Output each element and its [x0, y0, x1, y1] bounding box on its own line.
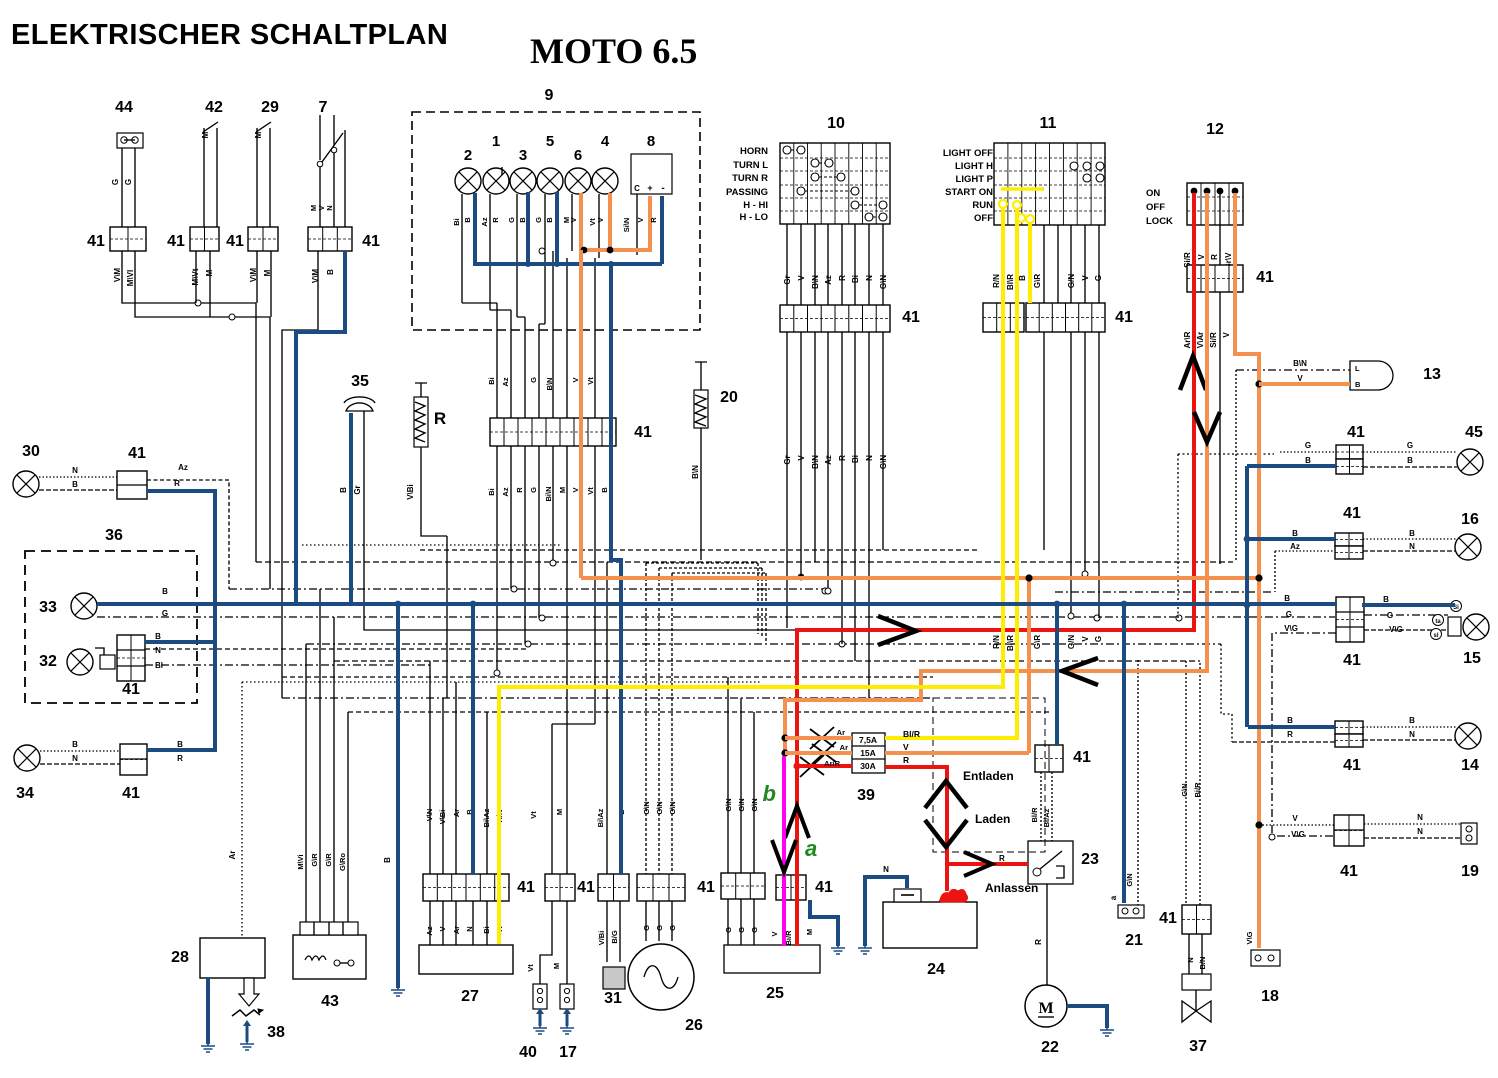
- svg-text:B: B: [518, 217, 527, 223]
- lamp 1: [483, 168, 509, 194]
- svg-text:20: 20: [720, 389, 738, 406]
- svg-text:G: G: [124, 179, 133, 185]
- svg-text:H - HI: H - HI: [743, 200, 768, 211]
- node orange 19: [1255, 821, 1262, 828]
- wire lamp6 V orange: [579, 193, 583, 250]
- svg-text:LIGHT P: LIGHT P: [956, 174, 994, 185]
- wire 15 G right: [1364, 614, 1448, 616]
- label 44 G G: [111, 179, 133, 185]
- svg-text:-: -: [661, 183, 664, 194]
- lamp 4: [592, 168, 618, 194]
- labels above 9 connector: [487, 377, 595, 391]
- label 30 out: [174, 463, 188, 488]
- wire band y592 right: [1055, 591, 1274, 593]
- wire lamp3 B navy: [526, 192, 530, 264]
- svg-text:Az: Az: [1290, 542, 1300, 551]
- connector 41 of 30: [117, 471, 147, 499]
- component 8 box: [631, 154, 672, 194]
- svg-text:Bi\Az: Bi\Az: [596, 808, 605, 827]
- svg-text:30A: 30A: [860, 761, 876, 771]
- label 32: [39, 653, 57, 670]
- component 7 label: [319, 99, 328, 116]
- svg-text:21: 21: [1125, 932, 1143, 949]
- label 3: [519, 147, 527, 164]
- arrow 28 hollow: [239, 978, 259, 1006]
- label 41 of 14: [1343, 757, 1361, 774]
- wire 38 navy: [243, 1020, 251, 1042]
- wire orange to 13: [1259, 382, 1350, 386]
- label 41 of 26conn: [697, 879, 715, 896]
- wire orange fuse2 out: [885, 578, 1029, 753]
- labels fuses: [859, 735, 877, 771]
- svg-text:41: 41: [1340, 863, 1358, 880]
- wire 14 R riser: [1221, 644, 1232, 742]
- svg-text:Az: Az: [178, 463, 188, 472]
- svg-text:B: B: [1305, 456, 1311, 465]
- svg-text:32: 32: [39, 653, 57, 670]
- connector 41 of 42: [190, 227, 219, 251]
- wire 25 G stubs: [728, 899, 754, 945]
- label 29 pins: [249, 268, 272, 283]
- svg-text:15A: 15A: [860, 748, 876, 758]
- switch 29: [254, 122, 271, 227]
- labels 19 left: [1291, 814, 1305, 839]
- svg-text:Ar\R: Ar\R: [1183, 331, 1192, 348]
- svg-text:V: V: [596, 217, 605, 222]
- component 43 internals: [305, 956, 354, 966]
- component 17: [560, 984, 574, 1009]
- labels fuse out: [903, 729, 920, 765]
- svg-text:G: G: [655, 925, 664, 931]
- wire orange main bus: [581, 576, 1261, 580]
- connector 41 of 14b: [1335, 734, 1363, 747]
- svg-text:30: 30: [22, 443, 40, 460]
- wire V violet: [782, 756, 786, 946]
- wire 14 to bulb: [1363, 727, 1456, 740]
- connector 41 of 45 b: [1336, 459, 1363, 474]
- wire 17 stub: [566, 901, 568, 984]
- label 39: [857, 787, 875, 804]
- labels 43 wires: [296, 853, 347, 871]
- motor 22: [1025, 985, 1067, 1027]
- svg-text:Gr: Gr: [353, 485, 362, 494]
- wire G line y617: [97, 615, 1335, 621]
- svg-text:G: G: [1407, 441, 1413, 450]
- labels 11 rows: [943, 148, 994, 224]
- component 42 label: [205, 99, 223, 116]
- label 21 a: [1109, 895, 1118, 900]
- svg-text:18: 18: [1261, 988, 1279, 1005]
- wire 37 stubs: [1189, 934, 1202, 974]
- svg-text:Gr: Gr: [783, 275, 792, 284]
- label 25: [766, 985, 784, 1002]
- svg-text:a: a: [805, 836, 817, 861]
- connector 41 of 31: [598, 874, 629, 901]
- svg-text:Bi: Bi: [851, 455, 860, 463]
- lamp 32: [67, 649, 93, 675]
- svg-text:G\N: G\N: [655, 801, 664, 814]
- connector 41 of 14: [1335, 721, 1363, 734]
- label 18 VG: [1245, 931, 1254, 944]
- ground 40: [533, 1020, 547, 1034]
- labels 10 wires: [783, 275, 888, 289]
- svg-text:Laden: Laden: [975, 812, 1010, 826]
- svg-text:Bi\N: Bi\N: [544, 487, 553, 502]
- svg-text:41: 41: [1159, 910, 1177, 927]
- svg-text:40: 40: [519, 1044, 537, 1061]
- svg-text:27: 27: [461, 988, 479, 1005]
- svg-text:Ar: Ar: [840, 743, 848, 752]
- svg-text:H - LO: H - LO: [740, 212, 769, 223]
- label 41 of 27: [517, 879, 535, 896]
- fuse X marks: [800, 727, 836, 777]
- svg-text:V: V: [1297, 374, 1303, 383]
- label 44 pins: [113, 268, 135, 287]
- svg-text:B: B: [600, 487, 609, 493]
- component 37 box: [1182, 974, 1211, 990]
- labels 45: [1305, 441, 1413, 465]
- svg-text:41: 41: [634, 424, 652, 441]
- wire lamp2 B navy: [473, 193, 477, 264]
- wire red down to 25: [795, 766, 799, 946]
- svg-text:Vt: Vt: [586, 487, 595, 495]
- wire relay conn wires: [1041, 772, 1052, 841]
- labels 19 right: [1417, 813, 1423, 836]
- svg-text:15: 15: [1463, 650, 1481, 667]
- svg-text:Bi: Bi: [452, 218, 461, 226]
- svg-text:8: 8: [647, 133, 655, 150]
- labels 31 pins: [597, 930, 619, 945]
- svg-text:b: b: [763, 781, 776, 806]
- svg-text:N: N: [325, 205, 334, 210]
- label 43: [321, 993, 339, 1010]
- svg-text:9: 9: [545, 87, 554, 104]
- svg-text:V: V: [770, 931, 779, 936]
- lamp 16: [1455, 534, 1481, 560]
- node orange fuse a: [781, 734, 788, 741]
- svg-text:G\N: G\N: [724, 798, 733, 811]
- connector 41 of 12: [1187, 265, 1243, 292]
- labels 4017 up: [529, 809, 564, 819]
- label 41 of 25: [815, 879, 833, 896]
- wire 31 riser thin: [606, 562, 608, 874]
- svg-text:M: M: [1038, 1000, 1053, 1017]
- switch 11 yellow contacts: [999, 200, 1034, 223]
- label 27: [461, 988, 479, 1005]
- wire 42 out: [196, 251, 210, 317]
- labels 12 wires: [1183, 252, 1233, 270]
- connector 41 of 16: [1335, 533, 1363, 546]
- svg-text:Az: Az: [824, 455, 833, 465]
- svg-text:L: L: [1355, 364, 1360, 373]
- svg-text:G\R: G\R: [1033, 274, 1042, 288]
- svg-text:41: 41: [577, 879, 595, 896]
- title Moto 6.5: [530, 31, 697, 71]
- wire Vt M pair to 40 17: [552, 724, 595, 874]
- wire 30 R navy: [147, 491, 215, 750]
- connector 41 of 29: [248, 227, 278, 251]
- switch 11 contacts: [1070, 162, 1104, 182]
- wire 43 risers: [306, 589, 348, 922]
- wire 25 GNx3: [728, 677, 754, 873]
- wire 34 to conn: [40, 751, 120, 764]
- connector 41 of 11: [983, 303, 1105, 332]
- wire band y677: [282, 676, 933, 678]
- svg-text:Ar: Ar: [228, 851, 237, 860]
- component 13: [1350, 361, 1393, 390]
- wire 9 columns down: [497, 251, 595, 418]
- wire band y661: [334, 660, 1200, 662]
- svg-text:G/N: G/N: [1067, 635, 1076, 649]
- wire 27 thin risers: [430, 661, 487, 874]
- svg-text:41: 41: [122, 681, 140, 698]
- connector 41 of 37: [1182, 905, 1211, 934]
- svg-text:R: R: [838, 455, 847, 461]
- wire 16 Az: [1275, 551, 1335, 592]
- wire lamp4 V orange: [608, 193, 612, 250]
- label 8: [647, 133, 655, 150]
- wire red to fuse 30A: [797, 764, 852, 768]
- label 16: [1461, 511, 1479, 528]
- svg-text:11: 11: [1040, 115, 1057, 132]
- node red fuse: [793, 762, 800, 769]
- svg-text:N: N: [1409, 730, 1415, 739]
- wire 7 B navy: [296, 251, 345, 604]
- label 22: [1041, 1039, 1059, 1056]
- svg-text:Ar: Ar: [452, 926, 461, 934]
- svg-text:V: V: [903, 742, 909, 752]
- svg-text:Bi: Bi: [487, 488, 496, 496]
- svg-text:Si\N: Si\N: [622, 218, 631, 233]
- svg-text:RUN: RUN: [972, 200, 993, 211]
- ground 28: [201, 1038, 215, 1052]
- svg-text:G: G: [724, 927, 733, 933]
- box 36 dashed: [25, 551, 197, 703]
- switch 7: [317, 115, 345, 167]
- labels 26 up: [642, 801, 677, 814]
- svg-text:G: G: [668, 925, 677, 931]
- svg-text:B: B: [1292, 529, 1298, 538]
- wire 27 yellow inside: [497, 901, 501, 944]
- svg-text:R: R: [999, 854, 1005, 863]
- wire orange to fuse2: [785, 751, 852, 755]
- label 24: [927, 961, 945, 978]
- svg-text:6: 6: [574, 147, 582, 164]
- svg-text:B\N: B\N: [545, 378, 554, 391]
- label Anlassen: [985, 881, 1038, 895]
- svg-text:N: N: [155, 646, 161, 655]
- lamp 30: [13, 471, 39, 497]
- arrow red up: [1180, 356, 1206, 390]
- svg-text:B: B: [1018, 275, 1027, 281]
- relay 23: [1028, 841, 1073, 884]
- lamp 6: [565, 168, 591, 194]
- labels 15 left: [1284, 594, 1298, 633]
- svg-text:G: G: [642, 925, 651, 931]
- lamp 15: [1463, 614, 1489, 640]
- svg-text:Bl\R: Bl\R: [1006, 635, 1015, 651]
- svg-text:B\N: B\N: [691, 465, 700, 479]
- wire 31 stubs: [607, 901, 620, 962]
- label 18: [1261, 988, 1279, 1005]
- label 33: [39, 599, 57, 616]
- svg-text:G: G: [529, 377, 538, 383]
- svg-text:Bl: Bl: [155, 661, 163, 670]
- wire band y644: [306, 641, 1221, 647]
- label 13: [1423, 366, 1441, 383]
- component 29 label: [261, 99, 279, 116]
- svg-text:G: G: [1286, 610, 1292, 619]
- svg-text:B: B: [1355, 380, 1361, 389]
- wire 35 Gr to y630: [364, 411, 795, 630]
- label 19: [1461, 863, 1479, 880]
- wire 16 B navy: [1247, 537, 1335, 541]
- svg-text:41: 41: [1343, 505, 1361, 522]
- svg-text:16: 16: [1461, 511, 1479, 528]
- svg-text:V\N: V\N: [425, 809, 434, 822]
- arrow red relay: [964, 852, 992, 876]
- label 31: [604, 990, 622, 1007]
- wire 30 to conn: [39, 477, 117, 490]
- connector 41 of 40 17: [545, 874, 575, 901]
- svg-text:22: 22: [1041, 1039, 1059, 1056]
- wire red to relay 23: [947, 862, 1028, 866]
- svg-text:HORN: HORN: [740, 146, 768, 157]
- wire 9 navy bus: [473, 262, 662, 266]
- connector 41 of 19: [1334, 815, 1364, 846]
- component 15 telltales: [1431, 601, 1462, 640]
- svg-text:41: 41: [1073, 749, 1091, 766]
- ground 25: [831, 940, 845, 954]
- svg-text:R: R: [515, 487, 524, 493]
- svg-text:a: a: [1109, 895, 1118, 900]
- wire 37 risers: [1186, 661, 1200, 905]
- svg-text:R: R: [177, 754, 183, 763]
- label 41 of 7: [362, 233, 380, 250]
- svg-text:B/G: B/G: [610, 930, 619, 944]
- wire navy 45 14 vertical: [1245, 466, 1249, 727]
- label 41 of 42: [167, 233, 185, 250]
- box relay dashed: [933, 698, 1045, 852]
- label 10: [827, 115, 845, 132]
- svg-text:19: 19: [1461, 863, 1479, 880]
- svg-text:B: B: [1383, 595, 1389, 604]
- lamp 5: [537, 168, 563, 194]
- node navy bus x1245: [1244, 602, 1251, 609]
- label 37: [1189, 1038, 1207, 1055]
- box 28: [200, 938, 265, 978]
- wire 19 V: [1259, 824, 1334, 826]
- svg-text:34: 34: [16, 785, 34, 802]
- svg-text:17: 17: [559, 1044, 577, 1061]
- label 41 of 10: [902, 309, 920, 326]
- svg-text:N: N: [865, 455, 874, 461]
- svg-text:41: 41: [87, 233, 105, 250]
- label B wire: [383, 857, 392, 863]
- svg-text:B: B: [463, 217, 472, 223]
- svg-text:M: M: [805, 929, 814, 935]
- label 9: [545, 87, 554, 104]
- wire 32 B navy: [145, 640, 215, 644]
- svg-text:V: V: [797, 275, 806, 281]
- svg-text:G\R: G\R: [1033, 635, 1042, 649]
- svg-text:41: 41: [1343, 757, 1361, 774]
- labels 27 pins: [425, 926, 504, 936]
- wire navy B down left: [396, 604, 400, 988]
- wire 28 Ar: [241, 682, 243, 938]
- svg-text:26: 26: [685, 1017, 703, 1034]
- label R relay: [999, 854, 1005, 863]
- svg-text:Bi: Bi: [487, 377, 496, 385]
- lamp 3: [510, 168, 536, 194]
- label 17: [559, 1044, 577, 1061]
- svg-text:V: V: [571, 377, 580, 382]
- labels 16 left: [1290, 529, 1300, 551]
- svg-text:V/Bi: V/Bi: [597, 931, 606, 946]
- svg-text:N: N: [1417, 813, 1423, 822]
- label V 13: [1297, 374, 1303, 383]
- svg-text:41: 41: [128, 445, 146, 462]
- wire 20 down: [700, 428, 702, 560]
- label 41 of 29: [226, 233, 244, 250]
- wire 14 B navy: [1248, 725, 1335, 729]
- label 5: [546, 133, 554, 150]
- switch 42: [201, 122, 218, 227]
- wire 14 R dash: [1232, 741, 1335, 743]
- fuse box 39: [852, 733, 885, 773]
- box 43: [293, 935, 366, 979]
- arrow red up b: [785, 806, 809, 838]
- svg-text:G: G: [111, 179, 120, 185]
- label a: [805, 836, 817, 861]
- svg-text:4: 4: [601, 133, 610, 150]
- svg-text:41: 41: [362, 233, 380, 250]
- wire orange ign V: [785, 193, 1207, 753]
- svg-text:V: V: [569, 217, 578, 222]
- svg-text:Bi: Bi: [851, 275, 860, 283]
- wire 17 ground stub: [563, 1008, 571, 1026]
- svg-text:V: V: [1222, 332, 1231, 338]
- label 7 pins top: [309, 205, 334, 211]
- label R VBi: [406, 484, 415, 500]
- labels 12 wires low: [1183, 331, 1231, 348]
- svg-text:45: 45: [1465, 424, 1483, 441]
- labels 16 right: [1409, 529, 1415, 551]
- svg-text:B: B: [383, 857, 392, 863]
- label 42 pins: [191, 268, 214, 285]
- svg-text:M: M: [555, 809, 564, 815]
- node 9 orange joins: [581, 247, 614, 254]
- svg-text:Bi/R: Bi/R: [1193, 782, 1202, 798]
- svg-text:OFF: OFF: [1146, 202, 1165, 213]
- arrow red right: [878, 616, 916, 645]
- wire navy to 21: [1122, 604, 1126, 903]
- svg-text:44: 44: [115, 99, 133, 116]
- svg-text:B: B: [339, 487, 348, 493]
- label 41 of 16: [1343, 505, 1361, 522]
- label N 24: [883, 865, 889, 874]
- spark 38: [232, 1009, 263, 1016]
- connector 41 of 44: [110, 227, 146, 251]
- wire band y545: [302, 544, 560, 546]
- wire yellow RN: [499, 207, 1003, 944]
- wire navy to 27: [471, 604, 475, 874]
- svg-text:V\Bi: V\Bi: [438, 810, 447, 825]
- node orange bus end: [1255, 574, 1262, 581]
- labels 10 wires low: [783, 455, 888, 469]
- label 20 BN: [691, 465, 700, 479]
- label Entladen: [963, 769, 1014, 783]
